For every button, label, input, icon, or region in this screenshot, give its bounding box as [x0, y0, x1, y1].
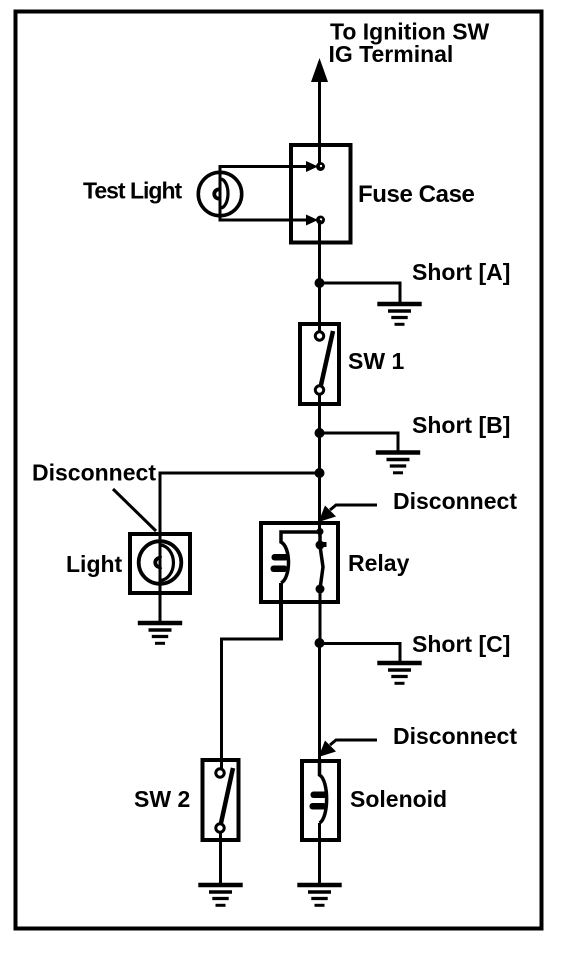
- ground (SW 2): [198, 885, 242, 905]
- ground (light): [138, 623, 182, 643]
- leader line: disconnect to light wire: [113, 489, 156, 531]
- ground (short C): [377, 663, 421, 683]
- svg-text:IG Terminal: IG Terminal: [329, 41, 454, 67]
- node: junction short B: [315, 428, 325, 438]
- wire: junction to ground A: [320, 283, 401, 302]
- wire: relay coil to SW 2: [279, 583, 283, 641]
- switch SW 2 contacts and blade: [216, 768, 233, 832]
- light lamp: [139, 534, 182, 593]
- svg-text:Fuse Case: Fuse Case: [358, 181, 475, 208]
- arrow: disconnect to relay top: [319, 505, 378, 522]
- svg-text:Disconnect: Disconnect: [393, 723, 517, 749]
- svg-text:Short [B]: Short [B]: [412, 412, 510, 438]
- wire: relay switch to junction C: [319, 589, 322, 643]
- svg-text:Test Light: Test Light: [83, 178, 183, 204]
- fuse case box: [291, 145, 351, 243]
- solenoid box: [302, 761, 339, 840]
- wire: arrow to fuse case: [318, 75, 321, 164]
- node: junction short A: [315, 278, 325, 288]
- svg-text:Disconnect: Disconnect: [393, 488, 517, 514]
- switch SW 1 box: [300, 324, 339, 404]
- ground (short B): [376, 453, 420, 473]
- node: junction to light branch: [315, 468, 325, 478]
- fuse terminal (bottom): [293, 215, 325, 226]
- ground (solenoid): [297, 885, 341, 905]
- label: To Ignition SW / IG Terminal: [329, 19, 490, 68]
- ground (short A): [377, 304, 421, 324]
- relay switch bottom contact: [316, 585, 325, 594]
- wire: SW 1 to junction B: [318, 395, 321, 473]
- svg-text:Disconnect: Disconnect: [32, 460, 156, 486]
- svg-text:Relay: Relay: [348, 550, 410, 576]
- relay connector (disconnect point): [316, 528, 327, 550]
- relay box: [261, 523, 338, 602]
- wire: test light to fuse terminal bottom: [220, 213, 309, 220]
- switch SW 1 contacts and blade: [315, 331, 333, 394]
- wire: junction to ground B: [320, 433, 399, 451]
- svg-text:SW 1: SW 1: [348, 348, 404, 374]
- relay switch blade: [320, 533, 323, 589]
- svg-text:Light: Light: [66, 551, 123, 577]
- arrow: disconnect to solenoid top: [319, 740, 378, 757]
- test light lamp: [198, 172, 241, 215]
- node: junction short C: [315, 638, 325, 648]
- svg-text:Short [C]: Short [C]: [412, 631, 510, 657]
- wire: fuse case to SW 1: [318, 220, 321, 332]
- wire: SW 2 to ground: [219, 833, 222, 883]
- relay coil: [271, 532, 319, 583]
- svg-text:Short [A]: Short [A]: [412, 259, 510, 285]
- light box: [130, 534, 190, 593]
- svg-text:SW 2: SW 2: [134, 786, 190, 812]
- wire: test light to fuse terminal top: [220, 167, 309, 176]
- wire: light to ground: [159, 593, 162, 621]
- switch SW 2 box: [203, 760, 239, 840]
- fuse terminal (top): [293, 161, 325, 172]
- wire: junction to ground C: [320, 644, 401, 662]
- wire: junction C to solenoid: [318, 643, 321, 775]
- svg-text:Solenoid: Solenoid: [350, 786, 447, 812]
- wire: branch to light: [160, 473, 320, 533]
- wire: solenoid to ground: [318, 823, 321, 883]
- solenoid coil: [310, 761, 328, 823]
- wire: junction to relay: [318, 473, 321, 530]
- arrow to ignition SW: [311, 58, 328, 82]
